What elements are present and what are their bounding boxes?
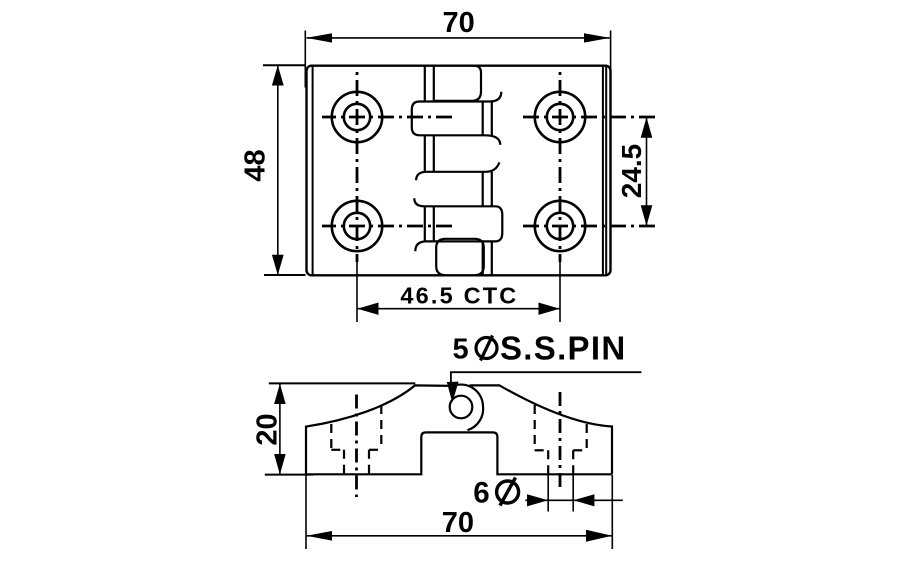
diameter symbol for pin xyxy=(476,336,497,361)
dim 6 dia: right arrow xyxy=(573,494,594,506)
dim 6 dia: extension lines xyxy=(548,475,573,512)
hinge pin hole xyxy=(450,396,473,419)
knuckle K1 top xyxy=(434,66,481,101)
svg-text:5: 5 xyxy=(453,334,469,366)
dim 70 bottom: dimension line xyxy=(306,535,612,537)
diameter symbol for 6 xyxy=(497,478,519,506)
centerline vertical right holes xyxy=(559,68,562,262)
dim 46.5 CTC: extension lines xyxy=(357,258,560,322)
side view bottom profile xyxy=(306,432,612,474)
pin leader line xyxy=(451,372,642,383)
side view centerline left hole xyxy=(355,395,358,498)
knuckle K6 bottom xyxy=(436,239,484,275)
hidden hole lines right leaf xyxy=(535,405,587,474)
hidden hole lines left leaf xyxy=(331,405,381,474)
knuckle outer curl xyxy=(450,385,483,431)
knuckle K2 band xyxy=(412,92,502,145)
dim 70 top: extension lines xyxy=(305,31,610,91)
hole top-left (inner) xyxy=(344,104,370,130)
knuckle barrel left verticals xyxy=(425,66,434,242)
dim 20: bottom arrow xyxy=(274,454,286,474)
dim 24.5: top arrow xyxy=(641,117,653,138)
hinge plate outline xyxy=(307,66,611,276)
dim 70 bottom: extension lines xyxy=(306,474,612,549)
svg-text:24.5: 24.5 xyxy=(616,144,647,199)
dim 70 top: left arrow xyxy=(306,33,332,42)
right leaf inner edge lines xyxy=(603,67,606,275)
side view centerline right hole xyxy=(559,392,562,489)
dim 70 bottom: left arrow xyxy=(306,531,332,541)
centerline vertical left holes xyxy=(356,68,359,262)
dim 20: extension lines xyxy=(265,383,416,474)
side view outline right leaf xyxy=(470,385,613,474)
dim 24.5: dimension line xyxy=(646,117,648,226)
knuckle barrel right verticals xyxy=(483,102,492,276)
left leaf inner edge line xyxy=(312,67,314,275)
svg-text:S.S.PIN: S.S.PIN xyxy=(500,330,626,367)
dim 6 dia: dimension line xyxy=(525,499,623,501)
svg-text:6: 6 xyxy=(473,476,489,509)
svg-text:70: 70 xyxy=(442,7,474,39)
hole bottom-left (inner) xyxy=(344,213,370,239)
dim 24.5: bottom arrow xyxy=(641,205,653,226)
dim 48: extension ticks xyxy=(263,65,306,275)
centerline horizontal bottom holes xyxy=(322,225,658,228)
hole top-right (inner) xyxy=(547,104,573,130)
dim 70 top: dimension line xyxy=(307,37,610,39)
svg-text:20: 20 xyxy=(252,413,284,445)
svg-text:46.5 CTC: 46.5 CTC xyxy=(400,283,518,309)
hole bottom-left (outer) xyxy=(332,201,382,251)
dim 6 dia: left arrow xyxy=(527,494,548,506)
dim 46.5 CTC: left arrow xyxy=(357,303,378,315)
svg-text:48: 48 xyxy=(240,149,272,181)
knuckle band4/5 boundary and right cap xyxy=(414,198,502,251)
hole top-left (outer) xyxy=(332,92,382,142)
dim 20: top arrow xyxy=(274,384,286,404)
hole bottom-right (outer) xyxy=(535,201,585,251)
dim 70 top: right arrow xyxy=(584,33,610,42)
svg-text:70: 70 xyxy=(442,507,474,539)
dim 46.5 CTC: dimension line xyxy=(357,308,560,310)
hole top-right (outer) xyxy=(535,92,585,142)
knuckle band4 top edge xyxy=(416,162,499,180)
hole bottom-right (inner) xyxy=(547,213,573,239)
dim 48: top arrow xyxy=(272,65,284,85)
pin leader arrow xyxy=(447,382,459,403)
side view outline left leaf xyxy=(306,385,452,474)
dim 70 bottom: right arrow xyxy=(586,530,612,542)
dim 48: dimension line xyxy=(277,65,279,275)
dim 20: dimension line xyxy=(279,383,281,474)
dim 48: bottom arrow xyxy=(272,255,284,275)
dim 46.5 CTC: right arrow xyxy=(539,303,560,315)
centerline horizontal top holes xyxy=(322,116,658,119)
